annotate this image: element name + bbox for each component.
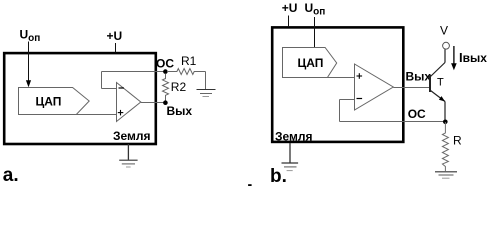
svg-text:ЦАП: ЦАП [298,56,324,70]
svg-text:Вых: Вых [167,104,193,118]
svg-text:ОС: ОС [156,56,174,70]
svg-text:b.: b. [270,166,287,186]
svg-text:+U: +U [282,1,298,15]
svg-text:Земля: Земля [275,129,313,143]
svg-text:ЦАП: ЦАП [36,95,62,109]
svg-text:Вых: Вых [406,70,432,84]
svg-text:a.: a. [3,165,19,186]
svg-text:+U: +U [107,29,123,43]
svg-text:Iвых: Iвых [459,50,487,65]
svg-text:ОС: ОС [408,107,426,121]
svg-text:T: T [437,77,444,89]
svg-text:R2: R2 [171,80,187,94]
svg-text:R: R [453,134,462,148]
svg-text:R1: R1 [181,54,197,68]
svg-text:Земля: Земля [113,129,151,143]
svg-text:V: V [440,24,448,38]
